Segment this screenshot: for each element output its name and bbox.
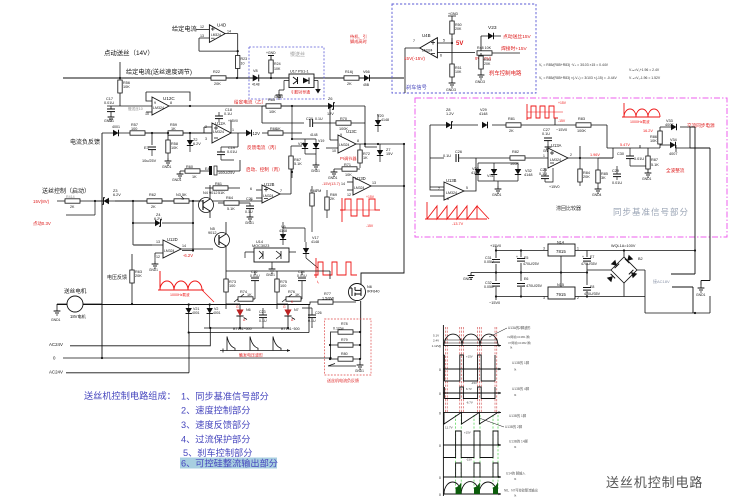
resistor R23 10K (vertical, U4D output) (236, 56, 240, 69)
resistor R80 (329, 352, 361, 361)
svg-text:BT151−500: BT151−500 (233, 327, 252, 331)
resistor R16j 2K (344, 70, 359, 86)
svg-text:3: 3 (543, 247, 545, 251)
svg-text:U13B的 1脚: U13B的 1脚 (509, 413, 526, 418)
red bipolar square waveform (top middle of box) (527, 104, 563, 120)
red dashed sync verticals (445, 327, 497, 412)
svg-text:+15V: +15V (464, 431, 471, 435)
wire thyristor bottoms to AC bus (218, 305, 312, 329)
svg-text:20K: 20K (214, 82, 221, 86)
svg-text:9t: 9t (514, 393, 517, 397)
resistor R61 51K (205, 182, 240, 195)
svg-text:送丝机电流负反馈: 送丝机电流负反馈 (327, 377, 359, 383)
svg-text:N6: N6 (246, 308, 251, 312)
op-amp U12D (134, 237, 213, 259)
electrolytic E6 470U/25V (517, 277, 543, 288)
svg-text:C29: C29 (612, 169, 619, 173)
svg-text:1: 1 (577, 247, 579, 251)
diode V22 4001 (207, 303, 221, 329)
optocoupler U17 PS1-1 (279, 70, 318, 93)
svg-text:+GND: +GND (266, 51, 276, 55)
svg-text:100: 100 (229, 284, 235, 288)
svg-text:GND3: GND3 (475, 80, 485, 84)
wire: PWM drive to MOSFET gate (361, 144, 404, 284)
box current sense dashed red border (325, 319, 372, 375)
svg-text:15V: 15V (386, 152, 393, 156)
diode V23 (481, 25, 501, 53)
svg-text:1000Hz载波: 1000Hz载波 (170, 292, 190, 297)
svg-text:6: 6 (250, 187, 252, 191)
svg-text:2: 2 (205, 125, 207, 129)
svg-text:7815: 7815 (556, 249, 566, 254)
svg-text:5.1V: 5.1V (433, 334, 439, 338)
wire: motor bus y304 (57, 304, 310, 306)
wire thyristor rail top (226, 258, 330, 279)
MOSFET N6 IRF640 (349, 284, 380, 301)
svg-text:9: 9 (154, 101, 156, 105)
svg-text:+ 470U/25V: + 470U/25V (523, 284, 543, 288)
svg-text:2K: 2K (151, 205, 156, 209)
wire sync box right section (613, 127, 690, 170)
ground arrow under U17 right (315, 89, 321, 94)
svg-text:5.1K: 5.1K (651, 163, 659, 167)
svg-text:0.01U: 0.01U (612, 181, 622, 185)
ground GND1 right (696, 285, 706, 297)
wire: current feedback row y133 (102, 132, 212, 134)
svg-text:10K: 10K (123, 85, 130, 89)
capacitor C20 0.1U (306, 117, 336, 127)
svg-text:+15V0: +15V0 (228, 119, 238, 123)
svg-text:GND1: GND1 (492, 193, 502, 197)
resistor R83 100K (555, 117, 613, 148)
svg-text:1000Hz载波: 1000Hz载波 (630, 119, 650, 124)
svg-text:U12D: U12D (167, 237, 178, 242)
resistor R67 5.1K (vertical) (289, 146, 302, 178)
svg-text:U13B的 4脚: U13B的 4脚 (512, 386, 529, 391)
svg-text:E3: E3 (144, 146, 149, 150)
svg-text:2K: 2K (347, 82, 352, 86)
regulator N15 7915 (543, 283, 579, 300)
power +GND stub (266, 51, 276, 60)
highlight bar for item 6 (180, 458, 277, 469)
svg-text:10K: 10K (171, 146, 178, 150)
svg-text:+15V: +15V (558, 101, 567, 105)
op-amp U12B (250, 178, 291, 203)
svg-text:470U/35V: 470U/35V (581, 262, 598, 266)
svg-text:R77: R77 (324, 292, 331, 296)
svg-text:5.1K: 5.1K (294, 162, 302, 166)
wire: main left vertical x102 (101, 133, 103, 357)
resistor R72 1K (vertical) (358, 144, 370, 168)
svg-text:+: + (582, 255, 584, 259)
svg-text:5: 5 (466, 186, 468, 190)
svg-text:GND1: GND1 (162, 165, 172, 169)
resistor R70 100K (336, 117, 377, 147)
svg-text:V₋ₐ=V₁-1.96 = 1.52V: V₋ₐ=V₁-1.96 = 1.52V (629, 76, 661, 80)
svg-text:同步基准信号部分: 同步基准信号部分 (613, 207, 689, 217)
svg-text:2、速度控制部分: 2、速度控制部分 (181, 405, 250, 416)
resistor R58 10K (vertical) (162, 140, 178, 169)
svg-text:U17 PS1-1: U17 PS1-1 (290, 70, 309, 74)
svg-text:7: 7 (438, 187, 440, 191)
svg-text:N6: N6 (367, 285, 372, 289)
resistor R64 5.1K (218, 196, 250, 211)
svg-text:-13.7V: -13.7V (452, 222, 464, 226)
electrolytic E7 470U/35V (581, 255, 598, 266)
wire bottom rail y313 (645, 296, 710, 313)
svg-text:R87: R87 (651, 158, 658, 162)
svg-text:9t: 9t (510, 346, 513, 350)
svg-text:GND1: GND1 (266, 273, 275, 277)
svg-text:12V: 12V (327, 112, 334, 116)
svg-text:11.7V: 11.7V (445, 426, 453, 430)
svg-text:1.96V: 1.96V (590, 153, 600, 157)
ground GND1 under C17 (104, 114, 114, 123)
diode V8 4148 (252, 69, 260, 87)
wire sense verticals (331, 333, 361, 360)
resistor R78 0.1/2w (330, 322, 361, 334)
wire row y133 continuation (145, 127, 212, 145)
svg-text:电压反馈: 电压反馈 (107, 274, 127, 281)
svg-text:5V: 5V (456, 41, 463, 47)
svg-text:5: 5 (250, 198, 252, 202)
svg-text:2K: 2K (330, 197, 335, 201)
svg-text:R78: R78 (341, 322, 348, 326)
svg-text:0.01U: 0.01U (297, 274, 307, 278)
svg-text:GND4: GND4 (274, 95, 283, 99)
svg-text:N4: N4 (203, 191, 208, 195)
node: bus junction x237 (236, 77, 238, 79)
red sawtooth waveform (bottom left of box) (425, 202, 489, 219)
resistor R56 10K (vertical) (118, 78, 130, 106)
svg-text:0.01U: 0.01U (634, 157, 644, 161)
svg-text:51K: 51K (218, 191, 225, 195)
svg-text:GND1: GND1 (328, 176, 338, 180)
svg-text:0: 0 (439, 444, 441, 448)
svg-text:V8: V8 (253, 69, 258, 73)
svg-text:R76: R76 (288, 290, 295, 294)
svg-text:3: 3 (543, 296, 545, 300)
svg-text:U13C: U13C (346, 129, 357, 134)
zener Z4 6.2V (132, 200, 194, 252)
svg-text:+GND: +GND (448, 12, 458, 16)
svg-text:LM324: LM324 (422, 49, 432, 53)
svg-text:7915: 7915 (556, 292, 566, 297)
svg-text:送丝机控制电路: 送丝机控制电路 (606, 475, 703, 490)
timing axis vertical (442, 325, 444, 496)
trace4 sawtooth (443, 411, 504, 427)
svg-text:R83: R83 (578, 117, 585, 121)
ground GND3 under R51 (446, 80, 456, 92)
svg-text:V19: V19 (318, 139, 324, 143)
svg-text:1K: 1K (247, 293, 252, 297)
capacitor C24 0.01U (297, 270, 307, 290)
svg-text:U12A: U12A (215, 121, 226, 126)
svg-text:LM324: LM324 (339, 143, 349, 147)
svg-text:引脚对导通: 引脚对导通 (291, 90, 310, 95)
wire: AC24V line 1 (70, 305, 309, 373)
svg-text:5.1K: 5.1K (227, 207, 235, 211)
svg-text:10K: 10K (650, 139, 657, 143)
trace7 SCR output with green fill (443, 482, 501, 496)
wire startup branch (66, 201, 95, 215)
wire op-amp output row (437, 38, 475, 64)
svg-text:0.1U: 0.1U (443, 154, 451, 158)
svg-text:1K: 1K (295, 293, 300, 297)
svg-text:1.2V: 1.2V (446, 112, 454, 116)
svg-text:0: 0 (439, 476, 441, 480)
AC coupling plates (671, 274, 710, 313)
svg-text:4148: 4148 (479, 112, 487, 116)
svg-text:2: 2 (570, 153, 572, 157)
svg-text:GND1: GND1 (104, 119, 114, 123)
svg-text:V₁ = R85/(R85+R83) ×(-V₊) = 3/: V₁ = R85/(R85+R83) ×(-V₊) = 3/103 ×(-15)… (539, 76, 617, 80)
wire: R56 vertical x120 (119, 62, 121, 78)
svg-text:12: 12 (156, 255, 160, 259)
svg-text:470U/25V: 470U/25V (523, 262, 540, 266)
svg-text:脚成高时: 脚成高时 (350, 38, 368, 45)
svg-text:R81: R81 (508, 117, 515, 121)
svg-text:LM324: LM324 (153, 106, 164, 110)
svg-text:10: 10 (145, 112, 149, 116)
wire to brake box (330, 77, 390, 79)
svg-text:GND1: GND1 (355, 369, 364, 373)
svg-text:-15V(13.7): -15V(13.7) (322, 182, 341, 186)
svg-text:14: 14 (341, 182, 345, 186)
svg-text:4007: 4007 (669, 152, 677, 156)
transistor N4 9012 (197, 185, 217, 218)
svg-text:-15V: -15V (466, 458, 472, 462)
svg-text:6: 6 (440, 54, 442, 58)
svg-text:GND4: GND4 (592, 193, 602, 197)
svg-text:-15V: -15V (471, 381, 477, 385)
svg-text:100K: 100K (577, 129, 586, 133)
svg-text:U13A: U13A (551, 143, 562, 148)
capacitor C21 0.1U (245, 197, 254, 225)
svg-text:N14: N14 (557, 241, 564, 245)
svg-text:反馈电流（丙）: 反馈电流（丙） (247, 144, 279, 151)
resistor N3 5K potentiometer (174, 193, 197, 203)
svg-text:0.01U: 0.01U (250, 274, 260, 278)
svg-text:慢送丝10: 慢送丝10 (128, 106, 143, 111)
svg-text:4001: 4001 (112, 125, 120, 129)
diode V17 4148 (303, 236, 319, 268)
resistor R71 10K (334, 163, 360, 177)
svg-text:6.7V: 6.7V (466, 387, 472, 391)
svg-text:8: 8 (170, 101, 172, 105)
svg-text:4148: 4148 (311, 240, 319, 244)
svg-text:R60: R60 (186, 165, 193, 169)
svg-text:GND3: GND3 (446, 88, 456, 92)
resistor R51 10K (vertical) (450, 64, 462, 80)
svg-text:8: 8 (357, 139, 359, 143)
svg-text:3、速度反馈部分: 3、速度反馈部分 (181, 419, 250, 430)
op-amp U12C (128, 92, 191, 116)
svg-text:PI调节器: PI调节器 (340, 155, 357, 162)
svg-text:GND1: GND1 (149, 268, 158, 272)
transistor N5 9012 (208, 222, 230, 258)
svg-text:20K: 20K (484, 62, 491, 66)
black trigger waveform 触发电压波形 (220, 337, 290, 353)
capacitor C31 0.05U (484, 256, 500, 264)
svg-text:45B: 45B (363, 83, 370, 87)
bridge rectifier B2 (607, 249, 645, 296)
trace1 pointer + label U13A pin2 (489, 328, 507, 337)
ground GND1 power (463, 273, 474, 282)
svg-text:送丝机控制电路组成：: 送丝机控制电路组成： (84, 390, 176, 401)
svg-text:给定电流: 给定电流 (172, 25, 197, 33)
svg-text:G: G (236, 305, 239, 309)
op-amp U13A (543, 143, 613, 168)
resistor R63 20K (vertical) (130, 254, 142, 305)
svg-text:GND1: GND1 (696, 293, 706, 297)
trace1 left labels (432, 334, 440, 349)
svg-text:13: 13 (200, 34, 204, 38)
svg-text:GND1: GND1 (463, 277, 473, 281)
svg-text:+15V: +15V (466, 355, 473, 359)
svg-text:AC24V: AC24V (49, 370, 63, 375)
svg-text:BT151−500: BT151−500 (281, 327, 300, 331)
svg-text:0.1U: 0.1U (224, 112, 232, 116)
svg-text:交流同步电源: 交流同步电源 (687, 122, 715, 129)
ground GND1 under diode chain (492, 186, 502, 197)
svg-text:LM324: LM324 (354, 186, 364, 190)
svg-text:18V电机: 18V电机 (70, 313, 87, 320)
svg-text:5K: 5K (182, 193, 187, 197)
svg-text:U13B的 1脚: U13B的 1脚 (512, 360, 529, 365)
svg-text:C23: C23 (259, 310, 266, 314)
svg-text:0.01U: 0.01U (227, 150, 237, 154)
svg-text:E5: E5 (524, 256, 528, 260)
electrolytic E4 100U/25V (205, 160, 240, 175)
svg-text:GND1: GND1 (311, 169, 320, 173)
svg-text:U13B: U13B (446, 178, 457, 183)
svg-text:R48 10K: R48 10K (477, 46, 492, 50)
svg-text:V₊ₐ=V₁+1.96 = 2.4V: V₊ₐ=V₁+1.96 = 2.4V (629, 68, 660, 72)
trace3 square small U13B pin4 (443, 387, 501, 399)
svg-text:4001: 4001 (213, 311, 221, 315)
resistor R87 5.1K (vertical) (642, 156, 659, 181)
resistor R49 20K (vertical) (479, 53, 491, 72)
diode V34 4007 (660, 138, 677, 156)
svg-text:3K: 3K (601, 176, 606, 180)
svg-text:2: 2 (577, 296, 579, 300)
resistor R84 20K (vertical) (578, 158, 590, 186)
svg-text:3: 3 (205, 137, 207, 141)
svg-text:滞回比较器: 滞回比较器 (556, 205, 581, 212)
svg-text:9t: 9t (514, 368, 517, 372)
op-amp U13D (341, 176, 404, 197)
svg-text:LM324: LM324 (164, 249, 174, 253)
diode V18 4148 (298, 139, 308, 154)
wire: zero volt line (63, 357, 330, 359)
resistor R74 1K (234, 290, 255, 302)
trace6 gate pulses (443, 463, 501, 478)
svg-text:7: 7 (280, 189, 282, 193)
svg-text:−15V0: −15V0 (489, 301, 500, 305)
svg-text:0.1U: 0.1U (245, 210, 253, 214)
svg-text:-15V: -15V (366, 224, 374, 228)
ground GND4 in slow box (274, 92, 283, 99)
ground GND3 under R49 (475, 72, 485, 84)
svg-text:1: 1 (543, 154, 545, 158)
svg-text:10K: 10K (455, 70, 462, 74)
svg-text:1K: 1K (276, 127, 281, 131)
resistor R68 7M (vertical) (310, 186, 321, 232)
diode V16 (246, 130, 252, 136)
ground GND1 motor (51, 304, 61, 322)
svg-text:接AC18V: 接AC18V (653, 278, 670, 284)
svg-text:10K: 10K (345, 173, 352, 177)
resistor R24 10K (vertical) (269, 60, 281, 79)
svg-text:U4D: U4D (217, 23, 227, 28)
svg-text:点动送丝15V: 点动送丝15V (503, 33, 532, 40)
svg-text:12: 12 (347, 193, 351, 197)
svg-text:4148: 4148 (310, 133, 318, 137)
motor M circle (57, 296, 102, 312)
svg-text:100: 100 (280, 284, 286, 288)
svg-text:送丝控制（启动）: 送丝控制（启动） (42, 187, 90, 195)
svg-text:100U/25V: 100U/25V (218, 171, 235, 175)
capacitor C28 0.1U (539, 168, 560, 189)
wire sync box left loop (430, 118, 555, 190)
svg-text:-6.7V: -6.7V (466, 401, 473, 405)
wire: given-current bus y78 (63, 77, 404, 79)
electrolytic E5 470U/25V (516, 255, 540, 266)
capacitor C30 (617, 148, 644, 166)
svg-text:R61: R61 (215, 182, 222, 186)
svg-text:15V(-15V): 15V(-15V) (404, 56, 425, 61)
ground GND1 under R71 (328, 169, 338, 180)
resistor R73 100 (vertical) (224, 279, 236, 304)
svg-text:MOC3023: MOC3023 (252, 244, 269, 248)
svg-text:IRF640: IRF640 (367, 290, 379, 294)
resistor R86 10K (vertical) (650, 131, 662, 144)
resistor R66 10K (262, 127, 302, 135)
svg-text:+15V0: +15V0 (490, 244, 501, 248)
svg-text:1K: 1K (363, 156, 368, 160)
svg-text:U13B的 2脚: U13B的 2脚 (505, 424, 522, 429)
op-amp U13C (326, 106, 404, 153)
svg-text:启动、控制（丙）: 启动、控制（丙） (246, 166, 283, 173)
svg-text:470U/35V: 470U/35V (584, 292, 601, 296)
svg-text:V7两端(U13B2 脚): V7两端(U13B2 脚) (508, 341, 531, 345)
svg-text:4148: 4148 (252, 83, 260, 87)
ground GND1 sense (355, 359, 364, 373)
svg-text:−15V0: −15V0 (556, 128, 567, 132)
op-amp U4D (209, 25, 225, 43)
svg-text:0: 0 (439, 493, 441, 497)
diode V32 4148 (478, 163, 532, 186)
svg-text:WQL1A=100V: WQL1A=100V (611, 244, 636, 248)
svg-text:V23: V23 (488, 25, 497, 31)
svg-text:1: 1 (232, 128, 234, 132)
svg-text:9t: 9t (514, 445, 517, 449)
svg-text:GND1: GND1 (642, 177, 652, 181)
svg-text:-15V: -15V (558, 119, 566, 123)
svg-text:12: 12 (200, 25, 204, 29)
capacitor C18 0.1U (215, 108, 232, 122)
svg-text:C26: C26 (315, 311, 322, 315)
svg-text:4001: 4001 (192, 311, 200, 315)
diode V21 4001 (186, 303, 200, 333)
zener Z2 6.2V (187, 138, 201, 152)
trace5 square U13B pin14 (443, 431, 501, 458)
svg-text:GND1: GND1 (172, 178, 182, 182)
svg-text:U13A的2脚波形: U13A的2脚波形 (508, 325, 531, 330)
svg-text:+15V: +15V (366, 195, 375, 199)
resistor R76 1K (282, 290, 302, 302)
